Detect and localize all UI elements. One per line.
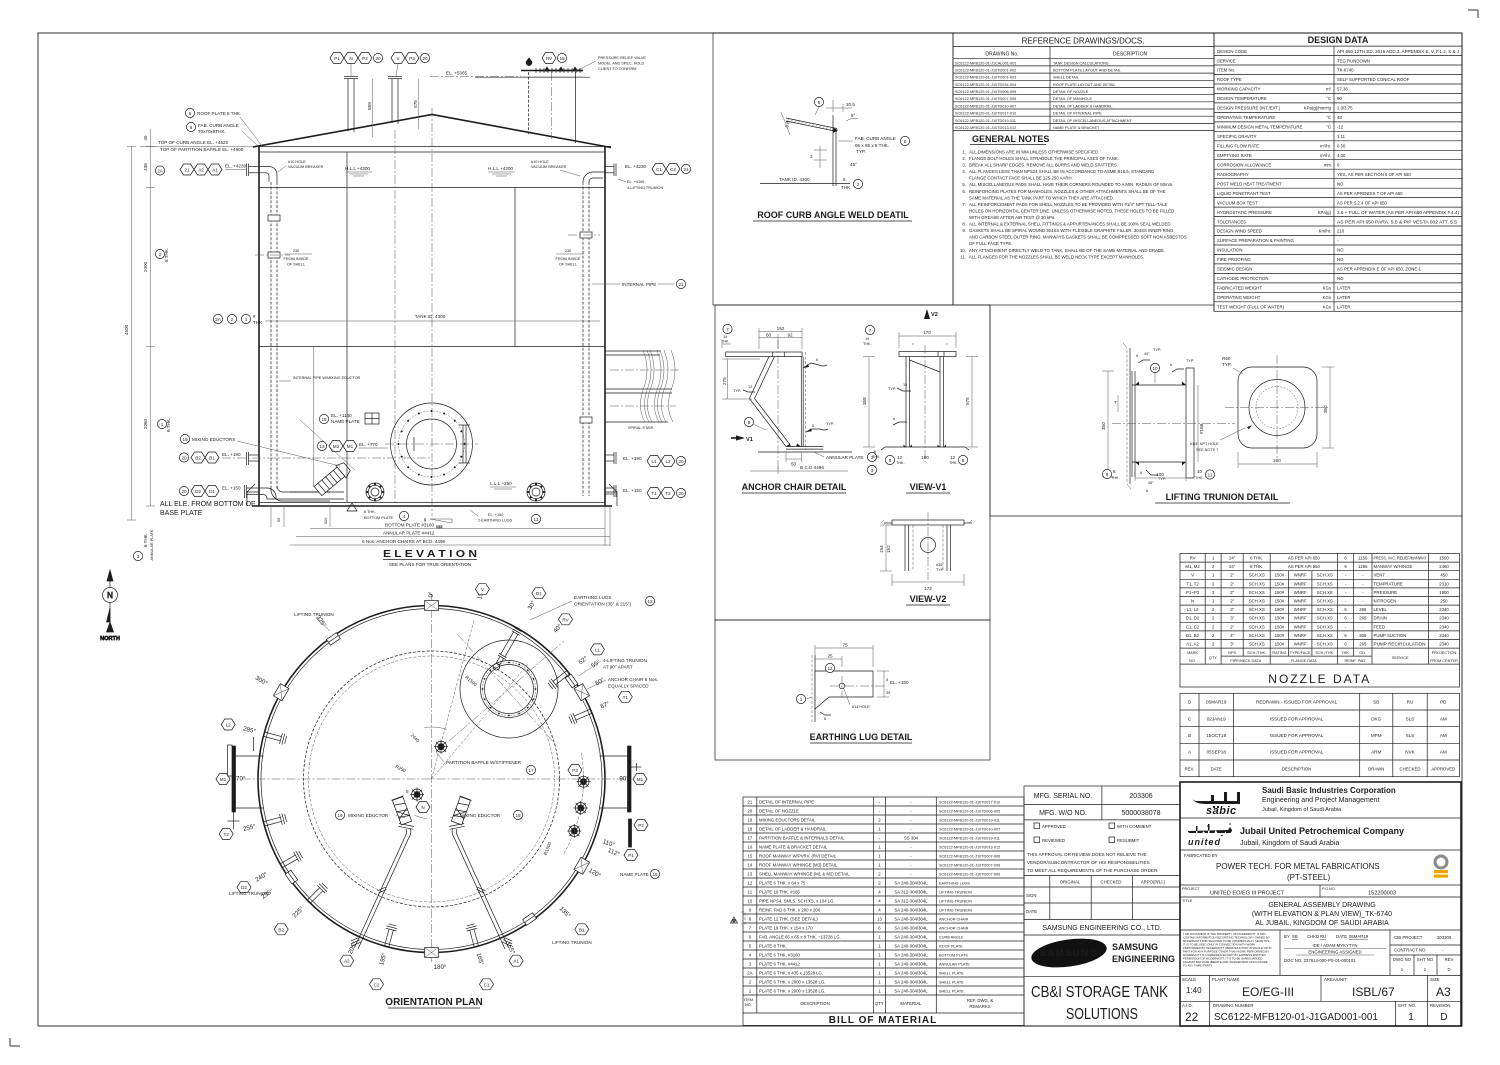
svg-text:REF. DWG. &: REF. DWG. &: [967, 998, 993, 1003]
svg-text:SC6122-MFB120-01-J10TD013-012: SC6122-MFB120-01-J10TD013-012: [939, 845, 1000, 849]
svg-text:TANK DESIGN CALCULATIONS: TANK DESIGN CALCULATIONS: [1053, 61, 1109, 65]
svg-text:BASE PLATE: BASE PLATE: [160, 510, 203, 517]
svg-text:CATHODIC PROTECTION: CATHODIC PROTECTION: [1217, 276, 1268, 281]
M1 manway structure at 90 deg: [600, 746, 642, 847]
svg-text:1: 1: [1408, 1012, 1414, 1023]
svg-text:SERVICE: SERVICE: [1217, 58, 1236, 63]
svg-text:8: 8: [962, 458, 965, 463]
svg-text:T1: T1: [623, 695, 629, 700]
mixing eductor assemblies: [449, 796, 513, 949]
svg-text:DRAWN: DRAWN: [1368, 766, 1384, 771]
svg-text:RU: RU: [1320, 934, 1326, 939]
name plate 16: [319, 413, 379, 424]
svg-text:1: 1: [424, 518, 426, 522]
svg-text:3": 3": [1230, 642, 1234, 647]
svg-text:265: 265: [1359, 607, 1367, 612]
svg-text:AM: AM: [1440, 750, 1447, 755]
svg-text:57.36: 57.36: [1337, 87, 1348, 92]
svg-text:THK.: THK.: [1111, 476, 1120, 480]
svg-text:100: 100: [921, 455, 929, 460]
PRV note: [578, 56, 646, 71]
svg-text:EL. +150: EL. +150: [890, 680, 909, 685]
center cross lines: [242, 778, 630, 780]
svg-text:19: 19: [865, 337, 869, 341]
svg-text:210: 210: [1337, 229, 1345, 234]
svg-text:MIXING EDUCTORS: MIXING EDUCTORS: [192, 437, 235, 442]
svg-text:mm: mm: [1324, 162, 1332, 167]
svg-text:NVK: NVK: [1405, 750, 1415, 755]
svg-text:m³/hr.: m³/hr.: [1320, 144, 1331, 149]
INTERNAL PIPE right label: [592, 279, 686, 288]
item 10 balloon: [1150, 363, 1159, 383]
svg-text:PLATE 8 THK.: PLATE 8 THK.: [759, 943, 787, 948]
box: lifting trunion: [990, 305, 1462, 516]
svg-text:3": 3": [1230, 607, 1234, 612]
svg-text:KGs: KGs: [1323, 286, 1331, 291]
svg-text:SCH.XS: SCH.XS: [1249, 633, 1265, 638]
RV 15 label: [542, 53, 567, 64]
230 FROM INSIDE OF SHELL left: [284, 249, 312, 267]
svg-text:7: 7: [1114, 400, 1117, 405]
svg-text:TYP.: TYP.: [1222, 362, 1232, 367]
svg-text:OPERATING WEIGHT: OPERATING WEIGHT: [1217, 295, 1261, 300]
svg-text:THK.: THK.: [253, 320, 263, 325]
svg-text:DETAIL OF LADDER & HANDRAIL: DETAIL OF LADDER & HANDRAIL: [759, 826, 827, 831]
svg-text:WITH GREASE AFTER AIR TEST @ 3: WITH GREASE AFTER AIR TEST @ 30 kPa.: [969, 215, 1056, 220]
svg-text:05MAR19: 05MAR19: [1349, 934, 1369, 939]
svg-text:N: N: [349, 56, 352, 61]
pressure relief valve assembly: [521, 58, 583, 143]
svg-text:KGs: KGs: [1323, 295, 1331, 300]
svg-text:RADIOGRAPHY: RADIOGRAPHY: [1217, 172, 1249, 177]
svg-text:SC6122-MFB120-01-J10TD019-011: SC6122-MFB120-01-J10TD019-011: [939, 836, 1000, 840]
bom row 20: [743, 814, 1024, 816]
box: anchor chair + views: [715, 305, 990, 620]
svg-text:50: 50: [277, 518, 281, 522]
svg-text:API 650 12TH ED, 2016 ADD.3, A: API 650 12TH ED, 2016 ADD.3, APPENDIX E,…: [1337, 49, 1459, 54]
svg-text:PLATE 10 THK. #165: PLATE 10 THK. #165: [759, 889, 801, 894]
svg-text:19: 19: [182, 437, 188, 442]
dim 20.5: [826, 100, 852, 112]
svg-text:859: 859: [367, 102, 372, 110]
svg-text:5: 5: [189, 111, 192, 116]
label 6 fab curb angle: [186, 122, 259, 147]
svg-text:DETAIL OF INTERNAL PIPE: DETAIL OF INTERNAL PIPE: [1053, 112, 1102, 116]
bom row 18: [743, 832, 1024, 834]
svg-text:10: 10: [1152, 366, 1158, 371]
Title row: [1180, 929, 1461, 931]
svg-text:BOTTOM PLATE: BOTTOM PLATE: [939, 953, 968, 957]
design data row: VACUUM BOX TEST: [1214, 206, 1462, 208]
design data row: WORKING CAPACITY: [1214, 93, 1462, 95]
svg-text:BOTTOM PLATE: BOTTOM PLATE: [364, 516, 393, 520]
svg-text:AT 90° APART: AT 90° APART: [603, 665, 633, 670]
svg-text:B2: B2: [195, 456, 201, 461]
svg-text:T1, T2: T1, T2: [1186, 581, 1199, 586]
svg-text:OD.: OD.: [1359, 651, 1366, 655]
svg-text:SHELL PLATE: SHELL PLATE: [939, 971, 964, 975]
svg-text:19: 19: [748, 817, 753, 822]
svg-text:278: 278: [722, 377, 727, 385]
svg-text:TYP.: TYP.: [1158, 477, 1166, 481]
svg-text:ARPO(PRJ.): ARPO(PRJ.): [1141, 880, 1166, 885]
svg-text:22: 22: [1185, 1010, 1199, 1024]
svg-text:435: 435: [143, 163, 148, 171]
ref row 6: [953, 101, 1214, 103]
svg-text:EARTHING LUGS: EARTHING LUGS: [939, 881, 970, 885]
svg-text:LIFTING TRUNION: LIFTING TRUNION: [294, 612, 334, 617]
svg-text:HYDROSTATIC PRESSURE: HYDROSTATIC PRESSURE: [1217, 210, 1272, 215]
svg-text:SC6122-MFB120-01-J10TD001-003: SC6122-MFB120-01-J10TD001-003: [955, 76, 1016, 80]
svg-text:M1: M1: [347, 444, 354, 449]
svg-text:PLATE 12 THK. (SE: PLATE 12 THK. (SEE DETAIL): [759, 916, 818, 921]
svg-text:265: 265: [1359, 616, 1367, 621]
svg-text:20: 20: [678, 459, 684, 464]
svg-text:SAMSUNG: SAMSUNG: [1039, 948, 1098, 959]
conical roof: [253, 115, 611, 148]
hexagon label C1: [480, 979, 494, 990]
ref row 5: [953, 94, 1214, 96]
svg-text:13: 13: [319, 444, 325, 449]
svg-text:DESCRIPTION: DESCRIPTION: [1282, 766, 1311, 771]
design data row: SERVICE: [1214, 64, 1462, 66]
HLL right: [488, 166, 515, 176]
svg-text:152: 152: [777, 326, 785, 331]
ref row 10: [953, 130, 1214, 132]
hexagon label C2: [370, 979, 384, 990]
design data row: FIRE PROOFING: [1214, 263, 1462, 265]
svg-text:P3: P3: [409, 56, 415, 61]
svg-text:EL. +150: EL. +150: [488, 513, 503, 517]
svg-text:ROOF TYPE: ROOF TYPE: [1217, 77, 1242, 82]
svg-text:10.: 10.: [960, 248, 966, 253]
svg-text:TYPE/FACE: TYPE/FACE: [1290, 651, 1311, 655]
svg-text:1.: 1.: [962, 150, 966, 155]
svg-text:ANY ATTACHMENT DIRECTLY WELD T: ANY ATTACHMENT DIRECTLY WELD TO TANK, SH…: [969, 248, 1165, 253]
svg-text:Saudi Basic Industries Corpora: Saudi Basic Industries Corporation: [1262, 786, 1396, 795]
R1500 dim line 40deg to roof manhole: [432, 664, 528, 779]
svg-text:SCH.XS: SCH.XS: [1249, 616, 1265, 621]
svg-text:45°: 45°: [1144, 352, 1150, 356]
svg-text:B.C.D 4496: B.C.D 4496: [800, 465, 824, 470]
svg-text:DWG NO: DWG NO: [1393, 957, 1412, 962]
partition baffle radius line 15deg: [432, 620, 475, 779]
checkboxes: [1034, 823, 1040, 829]
svg-text:90: 90: [1337, 96, 1342, 101]
svg-text:PRESSURE RELIEF VALVE: PRESSURE RELIEF VALVE: [598, 56, 646, 60]
svg-text:CHECKED: CHECKED: [1100, 880, 1121, 885]
plan view: rounded square: [1238, 367, 1317, 448]
#14 hole label: [844, 689, 870, 709]
svg-text:FABRICATED WEIGHT: FABRICATED WEIGHT: [1217, 286, 1262, 291]
svg-text:OPERATING TEMPERATURE: OPERATING TEMPERATURE: [1217, 115, 1275, 120]
svg-text:1: 1: [800, 697, 803, 702]
design data row: SURFACE PREPARATION &amp; PAINTING: [1214, 244, 1462, 246]
svg-text:LEVEL: LEVEL: [1374, 607, 1388, 612]
svg-text:PUMP RECIRCULATION: PUMP RECIRCULATION: [1374, 642, 1426, 647]
svg-text:SLS: SLS: [1406, 716, 1415, 721]
svg-text:MINIMUM DESIGN METAL TEMPERATU: MINIMUM DESIGN METAL TEMPERATURE: [1217, 125, 1302, 130]
svg-text:ARM: ARM: [1371, 750, 1381, 755]
svg-text:EL. +1100: EL. +1100: [331, 413, 352, 418]
svg-text:DESIGN CODE: DESIGN CODE: [1217, 49, 1247, 54]
svg-text:4.: 4.: [962, 169, 966, 174]
svg-text:19: 19: [723, 335, 727, 339]
weld symbols: [888, 383, 911, 391]
svg-text:THK.: THK.: [863, 342, 872, 346]
svg-text:FIRE PROOFING: FIRE PROOFING: [1217, 257, 1252, 262]
svg-text:11: 11: [1208, 473, 1213, 478]
svg-text:REVISION: REVISION: [1430, 1003, 1451, 1008]
svg-text:APPROVED: APPROVED: [1431, 766, 1455, 771]
svg-text:150#: 150#: [1275, 581, 1285, 586]
svg-text:172: 172: [924, 586, 932, 591]
svg-text:ALL FLANGES FOR THE NOZZLES SH: ALL FLANGES FOR THE NOZZLES SHALL BE WEL…: [969, 254, 1144, 259]
item 7 balloon: [865, 325, 874, 334]
svg-text:265: 265: [1359, 642, 1367, 647]
svg-text:6 Nos. ANCHOR CHAIRS AT BCD. 4: 6 Nos. ANCHOR CHAIRS AT BCD. 4496: [362, 539, 445, 544]
svg-text:A2: A2: [198, 168, 204, 173]
svg-text:NO: NO: [1337, 276, 1344, 281]
svg-text:SC6122-MFB120-01-J10TD034-004: SC6122-MFB120-01-J10TD034-004: [955, 83, 1016, 87]
svg-text:HOLES ON HORIZONTAL CENTER LIN: HOLES ON HORIZONTAL CENTER LINE. UNLESS …: [969, 208, 1174, 213]
svg-text:PLATE 6 THK. x 64 x 75: PLATE 6 THK. x 64 x 75: [759, 880, 806, 885]
center hole: [921, 538, 936, 553]
svg-text:ANNULAR PLATE: ANNULAR PLATE: [150, 529, 154, 560]
svg-text:VACUUM BREAKER: VACUUM BREAKER: [531, 165, 567, 169]
tank shell circles: [258, 606, 605, 953]
svg-text:INSULATION: INSULATION: [1217, 248, 1242, 253]
svg-text:A1: A1: [513, 959, 519, 964]
bom row 17: [743, 841, 1024, 843]
svg-text:2: 2: [159, 252, 162, 257]
bom row 14: [743, 868, 1024, 870]
svg-text:NO.: NO.: [745, 1003, 752, 1007]
svg-text:H.L.L +4200: H.L.L +4200: [345, 166, 370, 171]
svg-text:20: 20: [181, 489, 187, 494]
svg-text:MFG. W/O NO.: MFG. W/O NO.: [1039, 810, 1087, 817]
svg-text:ISSUED FOR APPROVAL: ISSUED FOR APPROVAL: [1270, 750, 1324, 755]
design data row: DESIGN TEMPERATURE: [1214, 102, 1462, 104]
nozzle stub 165 deg: [465, 923, 481, 948]
svg-text:GENERAL NOTES: GENERAL NOTES: [972, 134, 1049, 144]
svg-text:150#: 150#: [1275, 599, 1285, 604]
svg-text:Engineering and Project Manage: Engineering and Project Management: [1262, 797, 1380, 804]
svg-text:SA 240-304/304L: SA 240-304/304L: [894, 979, 928, 984]
svg-text:2060: 2060: [143, 418, 148, 429]
roof manhole M3/RV assembly: [460, 640, 558, 738]
svg-text:10: 10: [1197, 469, 1203, 474]
svg-text:PLATE 6 THK. x 2000 x 13528 LG: PLATE 6 THK. x 2000 x 13528 LG.: [759, 979, 825, 984]
internal pipe left elbow bottom: [271, 486, 289, 501]
svg-text:2.0/3.75: 2.0/3.75: [1337, 106, 1353, 111]
svg-text:D: D: [733, 919, 736, 923]
hexagon label L2: [221, 719, 235, 730]
2A A2 A1 nozzle label row EL+4230: [155, 166, 164, 175]
svg-text:EL. +190: EL. +190: [623, 456, 642, 461]
svg-text:4": 4": [1230, 633, 1234, 638]
top of partition baffle line: [259, 151, 605, 153]
svg-text:NO: NO: [1337, 248, 1344, 253]
svg-text:sabic: sabic: [1206, 805, 1237, 817]
svg-text:2340: 2340: [1439, 607, 1449, 612]
svg-text:C2: C2: [670, 167, 676, 172]
svg-text:4-LIFTING TRUNION: 4-LIFTING TRUNION: [627, 186, 663, 190]
svg-text:DRAWING No.: DRAWING No.: [985, 52, 1018, 58]
svg-text:6 THK.: 6 THK.: [143, 533, 148, 547]
svg-text:20: 20: [181, 456, 187, 461]
svg-text:m³: m³: [1326, 87, 1332, 92]
svg-text:6: 6: [1170, 363, 1172, 367]
BCD line: [750, 466, 848, 474]
svg-text:WORKING CAPACITY: WORKING CAPACITY: [1217, 87, 1261, 92]
svg-text:1255: 1255: [1358, 564, 1368, 569]
shell course seam 2: [259, 346, 605, 348]
svg-text:D2: D2: [195, 489, 201, 494]
svg-text:L2: L2: [226, 723, 232, 728]
svg-text:SCH.XS: SCH.XS: [1249, 624, 1265, 629]
svg-text:15: 15: [748, 853, 753, 858]
svg-text:2.6 + FULL OF WATER (AS PER AP: 2.6 + FULL OF WATER (AS PER API 650 APPE…: [1337, 210, 1460, 215]
svg-text:B1, B2: B1, B2: [1186, 633, 1200, 638]
vertical plate: [801, 357, 803, 447]
svg-text:500: 500: [324, 518, 328, 524]
svg-text:m³/hr.: m³/hr.: [1320, 153, 1331, 158]
trunnion pipe: [1132, 385, 1186, 462]
svg-text:SC6122-MFB120-01-J10TD007-006: SC6122-MFB120-01-J10TD007-006: [939, 872, 1000, 876]
svg-text:RV: RV: [546, 56, 553, 61]
svg-text:ORIENTATION (35° & 215°): ORIENTATION (35° & 215°): [574, 602, 632, 607]
hexagon label RV: [559, 614, 573, 625]
anchor chair 120 deg: [574, 857, 590, 874]
svg-text:6: 6: [893, 417, 895, 421]
svg-text:AL JUBAIL, KINGDOM OF SAUDI AR: AL JUBAIL, KINGDOM OF SAUDI ARABIA: [1255, 920, 1389, 927]
bom row 2A: [743, 976, 1024, 978]
svg-text:#10 HOLE: #10 HOLE: [288, 160, 306, 164]
item 8 balloon: [744, 417, 766, 430]
svg-text:L2: L2: [665, 459, 671, 464]
R50 TYP: [1222, 356, 1243, 374]
svg-text:2000: 2000: [143, 261, 148, 272]
svg-text:8: 8: [886, 678, 888, 682]
svg-text:SA 240-304/304L: SA 240-304/304L: [894, 934, 928, 939]
svg-text:AND CARBON STEEL OUTER RING. M: AND CARBON STEEL OUTER RING. MANWAYS GAS…: [969, 235, 1187, 240]
svg-text:TK-6740: TK-6740: [1337, 68, 1354, 73]
svg-text:SA 312-304/304L: SA 312-304/304L: [894, 898, 928, 903]
P3 P2 P1 hexagon labels: [568, 765, 648, 861]
P3 P2 P1 roof nozzles on R1500 arc: [577, 775, 591, 789]
svg-text:WNRF: WNRF: [1294, 573, 1307, 578]
svg-text:SOLUTIONS: SOLUTIONS: [1066, 1006, 1138, 1023]
EL +5365 line: [430, 76, 521, 78]
svg-text:150#: 150#: [1275, 590, 1285, 595]
partition baffle vertical: [346, 152, 348, 502]
weld marks at joint: [833, 128, 838, 133]
svg-text:8 THK.: 8 THK.: [1250, 564, 1263, 569]
Project row: [1180, 896, 1461, 898]
D1 nozzle assembly at 30 deg: [491, 627, 522, 672]
svg-text:2A: 2A: [157, 169, 164, 174]
svg-text:SLS: SLS: [1406, 733, 1415, 738]
svg-text:2A: 2A: [747, 970, 752, 975]
svg-text:SHELL PLATE: SHELL PLATE: [939, 989, 964, 993]
HLL left: [345, 166, 372, 176]
svg-text:PROJECTION: PROJECTION: [1432, 651, 1457, 655]
svg-text:SA 240-304/304L: SA 240-304/304L: [894, 961, 928, 966]
svg-text:CONTRACT NO: CONTRACT NO: [1394, 948, 1426, 953]
nozzle stub 52 deg: [547, 668, 572, 691]
svg-text:(WITH ELEVATION & PLAN VIEW)_T: (WITH ELEVATION & PLAN VIEW)_TK-6740: [1252, 911, 1392, 918]
svg-text:SC6122-MFB120-01-J1GAD001-001: SC6122-MFB120-01-J1GAD001-001: [1214, 1012, 1378, 1023]
svg-text:BREAK ALL SHARP EDGES. REMOVE: BREAK ALL SHARP EDGES. REMOVE ALL BURRS …: [969, 163, 1118, 168]
lifting trunion 325 deg: [327, 633, 341, 646]
svg-text:OF SHELL: OF SHELL: [559, 263, 577, 267]
svg-text:#10 HOLE: #10 HOLE: [531, 160, 549, 164]
svg-text:ROOF PLATE LAYOUT AND DETAIL: ROOF PLATE LAYOUT AND DETAIL: [1053, 83, 1116, 87]
ref row 4: [953, 87, 1214, 89]
svg-text:SA 240-304/304L: SA 240-304/304L: [894, 925, 928, 930]
svg-text:EO/EG-III: EO/EG-III: [1242, 985, 1294, 999]
svg-text:PIPE NPS4, SMLS, SCH.XS, x 104: PIPE NPS4, SMLS, SCH.XS, x 104 LG.: [759, 898, 835, 903]
dim 278: [722, 359, 760, 399]
svg-text:PLATE 6 THK. #4412: PLATE 6 THK. #4412: [759, 961, 801, 966]
mixing eductor on internal pipe bottom: [313, 460, 352, 497]
LLL +250: [490, 481, 516, 489]
nozzle stub 240 deg: [278, 850, 303, 871]
svg-text:SCH.XS: SCH.XS: [1249, 590, 1265, 595]
svg-text:DESIGN WIND SPEED: DESIGN WIND SPEED: [1217, 229, 1262, 234]
svg-text:LIFTING TRUNION: LIFTING TRUNION: [939, 908, 972, 912]
svg-text:LATER: LATER: [1337, 286, 1351, 291]
svg-text:8: 8: [889, 458, 892, 463]
svg-text:P2: P2: [362, 56, 368, 61]
inner dashed circles: [304, 651, 560, 907]
svg-text:BOTTOM PLATE #3160: BOTTOM PLATE #3160: [385, 523, 435, 528]
svg-text:MATERIAL: MATERIAL: [900, 1001, 922, 1006]
svg-text:SC6122-MFB120-01-J10TD007-006: SC6122-MFB120-01-J10TD007-006: [939, 854, 1000, 858]
svg-text:#: #: [253, 314, 256, 319]
svg-text:350: 350: [1323, 405, 1328, 413]
svg-text:24": 24": [1229, 564, 1236, 569]
svg-text:RV: RV: [1190, 556, 1196, 561]
svg-text:MIXING EDUCTOR: MIXING EDUCTOR: [348, 813, 389, 818]
svg-text:200: 200: [1273, 458, 1281, 463]
svg-text:AM: AM: [1440, 716, 1447, 721]
svg-text:2.: 2.: [962, 156, 966, 161]
svg-text:SB: SB: [1292, 934, 1298, 939]
svg-text:13: 13: [748, 871, 753, 876]
svg-text:TEST WEIGHT (FULL OF WATER): TEST WEIGHT (FULL OF WATER): [1217, 305, 1285, 310]
svg-text:RATING: RATING: [1272, 651, 1286, 655]
svg-text:REINF. PAD 6 THK. x 200 x 200: REINF. PAD 6 THK. x 200 x 200: [759, 907, 821, 912]
svg-text:KPa(g): KPa(g): [1318, 210, 1332, 215]
svg-text:SAMSUNG: SAMSUNG: [1112, 942, 1158, 952]
svg-text:21: 21: [683, 167, 689, 172]
center hub fitting on 15deg line: [434, 740, 448, 754]
svg-text:ALL MISCELLANEOUS PADS SHALL H: ALL MISCELLANEOUS PADS SHALL HAVE THEIR …: [969, 182, 1173, 187]
svg-text:M2: M2: [220, 777, 227, 782]
svg-text:FABRICATED BY: FABRICATED BY: [1184, 853, 1218, 858]
svg-text:SCH./THK.: SCH./THK.: [1315, 651, 1334, 655]
svg-text:ANCHOR CHAIR 6 Nos.: ANCHOR CHAIR 6 Nos.: [608, 677, 658, 682]
centerline: [777, 340, 779, 471]
svg-text:ENGINEERING ASSIGNED: ENGINEERING ASSIGNED: [1308, 950, 1361, 955]
svg-text:TYP.: TYP.: [826, 422, 834, 426]
20 B2 B1 EL+190: [179, 452, 241, 463]
svg-text:PLATE 19 THK. x 154 x 170: PLATE 19 THK. x 154 x 170: [759, 925, 813, 930]
svg-text:NO.: NO.: [1189, 659, 1196, 663]
svg-text:17: 17: [528, 768, 534, 773]
